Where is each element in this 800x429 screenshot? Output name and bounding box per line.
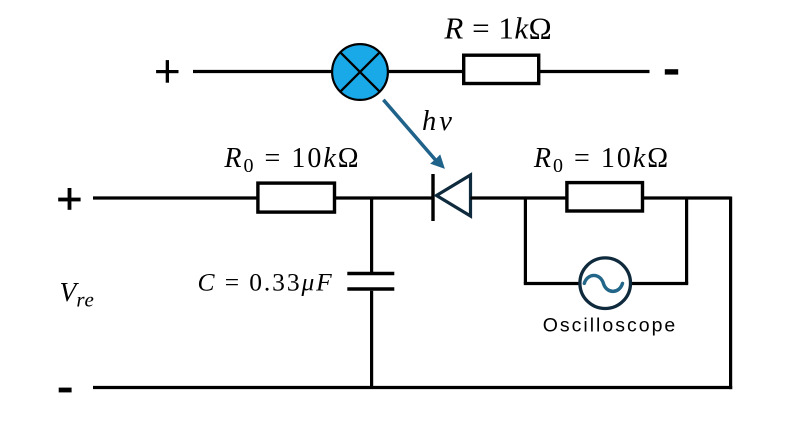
wire bottom: [93, 386, 732, 389]
plus terminal (top): [156, 60, 178, 83]
wire capacitor to bottom: [370, 291, 373, 389]
minus terminal (bottom): [59, 388, 72, 393]
svg-text:R0 = 10kΩ: R0 = 10kΩ: [533, 143, 670, 177]
lamp (light source): [332, 44, 388, 100]
svg-text:Vre: Vre: [60, 276, 95, 312]
resistor R0 (right): [567, 183, 643, 211]
wire right vertical: [729, 197, 732, 390]
plus terminal (bottom): [58, 188, 80, 210]
oscilloscope: [580, 258, 631, 309]
wire lamp to resistor: [387, 70, 463, 73]
minus terminal (top): [665, 69, 678, 74]
wire resistor to minus: [539, 70, 650, 73]
wire top-left: [193, 70, 333, 73]
oscilloscope branch left wire: [524, 197, 579, 284]
wire junction to capacitor: [370, 197, 373, 273]
photodiode: [433, 174, 471, 221]
capacitor C: [347, 274, 394, 290]
svg-text:C = 0.33μF: C = 0.33μF: [198, 268, 334, 297]
svg-text:Oscilloscope: Oscilloscope: [543, 315, 678, 337]
wire diode to right corner: [471, 196, 731, 199]
svg-text:R = 1kΩ: R = 1kΩ: [443, 11, 552, 46]
resistor R0 (left): [258, 183, 335, 212]
light arrow hv: [383, 100, 445, 169]
svg-text:R0 = 10kΩ: R0 = 10kΩ: [223, 143, 360, 177]
svg-text:hν: hν: [422, 106, 455, 137]
resistor R: [464, 55, 539, 83]
wire bottom-left: [93, 196, 259, 199]
oscilloscope branch right wire: [632, 197, 689, 284]
wire resistor to diode: [335, 196, 433, 199]
